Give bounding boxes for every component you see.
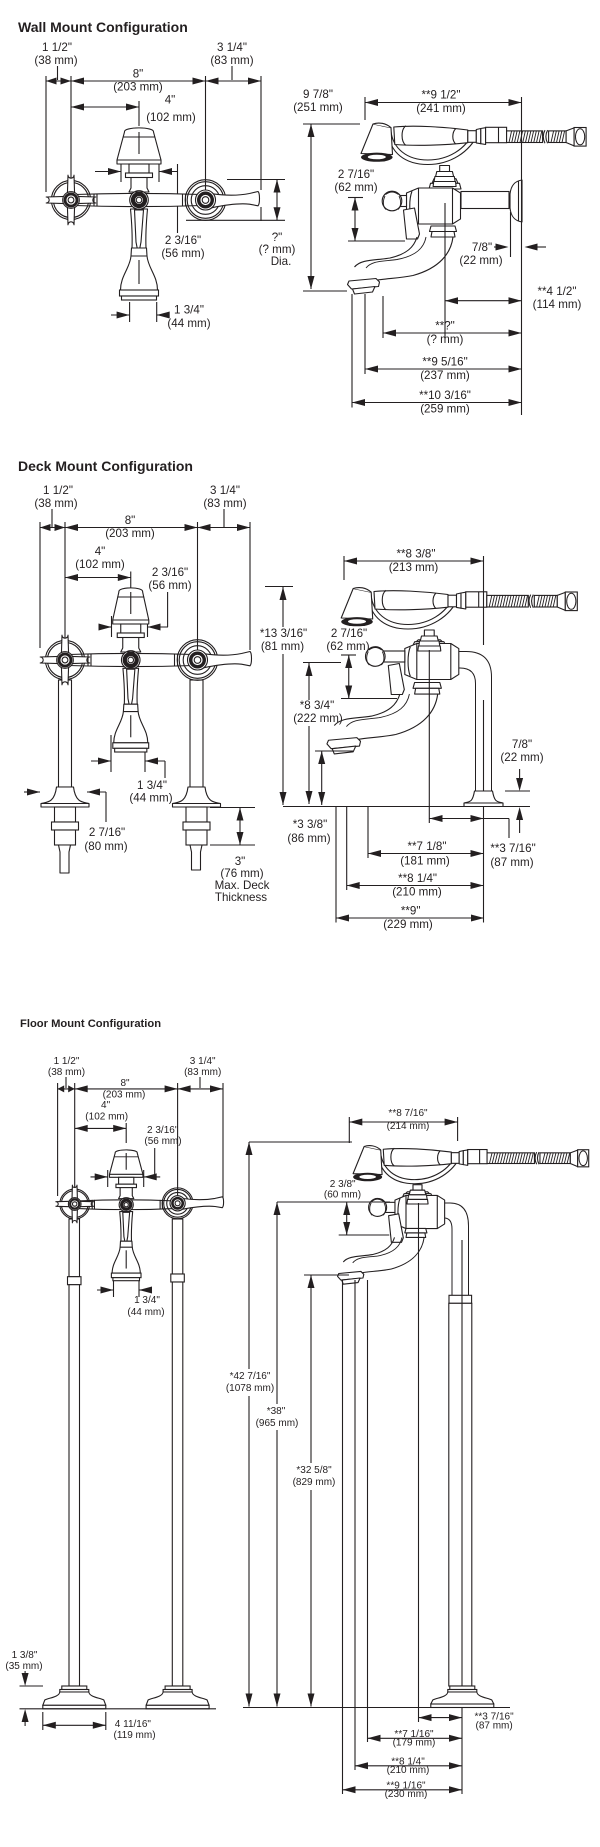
svg-text:(210 mm): (210 mm) — [387, 1765, 430, 1776]
floor lever handle front — [162, 1188, 193, 1219]
tub spout front — [131, 209, 148, 248]
floor tub spout front — [120, 1212, 133, 1242]
svg-text:(87 mm): (87 mm) — [490, 856, 533, 869]
svg-text:(? mm): (? mm) — [427, 333, 464, 346]
svg-text:(203 mm): (203 mm) — [105, 527, 155, 540]
svg-text:(81 mm): (81 mm) — [261, 640, 304, 653]
deck dimension 2 7/16" (80 mm) flange — [24, 791, 40, 793]
deck dim line 8" — [65, 527, 198, 529]
floor spout bonnet front — [109, 1150, 142, 1177]
deck right riser pipe — [190, 680, 203, 787]
svg-text:**3 7/16": **3 7/16" — [490, 842, 535, 855]
svg-text:(35 mm): (35 mm) — [5, 1661, 42, 1672]
svg-text:(102 mm): (102 mm) — [146, 111, 196, 124]
deck dimension **3 7/16" (87 mm) — [430, 818, 484, 820]
svg-text:(83 mm): (83 mm) — [210, 54, 253, 67]
svg-text:4": 4" — [165, 94, 176, 107]
svg-text:2 3/16": 2 3/16" — [152, 566, 188, 579]
svg-text:(22 mm): (22 mm) — [459, 254, 502, 267]
floor dim line 8" — [75, 1088, 178, 1090]
deck riser axis line — [483, 700, 485, 791]
deck right shank with nut — [186, 807, 207, 822]
svg-text:(60 mm): (60 mm) — [324, 1190, 361, 1201]
svg-text:(119 mm): (119 mm) — [114, 1730, 156, 1741]
floor dim line 3 1/4" — [178, 1088, 223, 1090]
svg-text:*3 3/8": *3 3/8" — [293, 818, 327, 831]
floor bottom extension lines — [342, 1280, 344, 1794]
svg-text:(1078 mm): (1078 mm) — [226, 1383, 274, 1394]
svg-text:7/8": 7/8" — [512, 738, 532, 751]
svg-text:*38": *38" — [267, 1406, 286, 1417]
spout bonnet front — [117, 128, 161, 164]
deck hand shower with cradle and hose — [368, 596, 459, 629]
dim line 3 1/4" — [206, 80, 262, 82]
extension line lever tip — [260, 76, 262, 190]
svg-text:(222 mm): (222 mm) — [293, 712, 343, 725]
deck right mounting flange — [173, 787, 221, 807]
svg-text:(965 mm): (965 mm) — [256, 1418, 299, 1429]
svg-text:(56 mm): (56 mm) — [161, 247, 204, 260]
svg-text:(251 mm): (251 mm) — [293, 101, 343, 114]
svg-text:8": 8" — [133, 68, 144, 81]
svg-text:(38 mm): (38 mm) — [48, 1067, 85, 1078]
svg-text:Wall Mount Configuration: Wall Mount Configuration — [18, 19, 188, 35]
svg-text:2 3/8": 2 3/8" — [330, 1179, 356, 1190]
extension line right handle center — [205, 76, 207, 200]
svg-text:(241 mm): (241 mm) — [416, 102, 466, 115]
svg-text:**10 3/16": **10 3/16" — [419, 389, 471, 402]
deck cross handle front — [45, 640, 84, 679]
svg-text:Dia.: Dia. — [271, 255, 292, 268]
svg-text:(44 mm): (44 mm) — [167, 317, 210, 330]
svg-text:2 7/16": 2 7/16" — [331, 627, 367, 640]
deck dimension *13 3/16" (81 mm) — [265, 586, 293, 588]
floor riser floor flange — [450, 1686, 475, 1690]
floor tee body front — [79, 1200, 174, 1210]
svg-text:1 3/4": 1 3/4" — [174, 304, 204, 317]
deck extension lines top — [39, 522, 41, 648]
long right extension line (wall) — [521, 97, 523, 415]
deck left shank with nut — [55, 807, 76, 822]
svg-text:(237 mm): (237 mm) — [420, 369, 470, 382]
deck line — [283, 806, 509, 808]
svg-text:(203 mm): (203 mm) — [103, 1090, 146, 1101]
svg-text:2 7/16": 2 7/16" — [89, 826, 125, 839]
svg-text:3 1/4": 3 1/4" — [210, 484, 240, 497]
supply nipple to wall — [461, 192, 509, 209]
lever handle front — [185, 180, 226, 221]
dim line 8" — [71, 80, 206, 82]
svg-text:1 3/8": 1 3/8" — [12, 1650, 38, 1661]
svg-text:**?": **?" — [435, 320, 455, 333]
svg-text:**8 3/8": **8 3/8" — [397, 548, 436, 561]
deck dimension *3 3/8" (86 mm) — [315, 750, 353, 752]
svg-text:3 1/4": 3 1/4" — [217, 41, 247, 54]
deck riser tube — [450, 652, 492, 792]
svg-text:*32 5/8": *32 5/8" — [296, 1465, 332, 1476]
svg-text:2 7/16": 2 7/16" — [338, 168, 374, 181]
floor cross handle front — [60, 1189, 90, 1219]
deck spout bonnet front — [113, 588, 149, 624]
svg-text:**9 5/16": **9 5/16" — [422, 356, 467, 369]
svg-text:(22 mm): (22 mm) — [500, 751, 543, 764]
floor line under side view — [243, 1707, 510, 1709]
svg-text:(62 mm): (62 mm) — [334, 181, 377, 194]
deck tub spout front — [123, 668, 139, 704]
tee body front — [75, 193, 202, 206]
floor dimension *42 7/16" (1078 mm) — [249, 1141, 352, 1143]
floor extension lines top — [57, 1083, 59, 1196]
svg-text:(83 mm): (83 mm) — [203, 497, 246, 510]
deck lever handle front — [177, 640, 218, 681]
svg-text:**8 7/16": **8 7/16" — [388, 1108, 428, 1119]
svg-text:(210 mm): (210 mm) — [392, 886, 442, 899]
floor valve body side — [410, 1190, 426, 1192]
svg-text:(44 mm): (44 mm) — [127, 1307, 164, 1318]
svg-text:(829 mm): (829 mm) — [293, 1477, 336, 1488]
floor dim line 1 1/2" — [58, 1088, 75, 1090]
extension line left handle center — [70, 76, 72, 200]
floor riser tube — [437, 1203, 469, 1295]
svg-text:*13 3/16": *13 3/16" — [260, 627, 307, 640]
deck valve body side — [421, 638, 438, 640]
svg-text:(214 mm): (214 mm) — [387, 1121, 430, 1132]
floor dimension 4 11/16" (119 mm) — [42, 1712, 44, 1730]
svg-text:(38 mm): (38 mm) — [34, 54, 77, 67]
floor hand shower with cradle and hose — [378, 1153, 461, 1183]
svg-text:1 1/2": 1 1/2" — [43, 484, 73, 497]
svg-text:4": 4" — [101, 1100, 111, 1111]
svg-text:2 3/16": 2 3/16" — [165, 234, 201, 247]
deck riser flange — [464, 791, 503, 807]
svg-text:(38 mm): (38 mm) — [34, 497, 77, 510]
svg-text:3 1/4": 3 1/4" — [190, 1056, 216, 1067]
svg-text:*8 3/4": *8 3/4" — [300, 699, 334, 712]
svg-text:1 1/2": 1 1/2" — [54, 1056, 80, 1067]
svg-text:(102 mm): (102 mm) — [85, 1112, 128, 1123]
svg-text:(102 mm): (102 mm) — [75, 558, 125, 571]
tub spout side — [430, 226, 457, 232]
floor dimension *38" (965 mm) — [277, 1201, 390, 1203]
floor dimension **3 7/16" (87 mm) — [419, 1717, 463, 1719]
valve body side — [437, 174, 454, 179]
svg-text:1 1/2": 1 1/2" — [42, 41, 72, 54]
svg-text:Thickness: Thickness — [215, 891, 267, 904]
svg-text:Deck Mount Configuration: Deck Mount Configuration — [18, 458, 193, 474]
svg-text:1 3/4": 1 3/4" — [134, 1295, 160, 1306]
svg-text:2 3/16": 2 3/16" — [147, 1125, 179, 1136]
svg-text:**4 1/2": **4 1/2" — [538, 285, 577, 298]
floor line under front view — [20, 1708, 217, 1710]
cross handle front — [51, 180, 90, 219]
svg-text:(203 mm): (203 mm) — [113, 81, 163, 94]
svg-text:*42 7/16": *42 7/16" — [230, 1371, 271, 1382]
svg-text:4 11/16": 4 11/16" — [115, 1719, 152, 1730]
svg-text:**8 1/4": **8 1/4" — [398, 872, 437, 885]
svg-text:**7 1/8": **7 1/8" — [408, 840, 447, 853]
deck dimension *8 3/4" (222 mm) — [303, 662, 341, 664]
svg-text:9 7/8": 9 7/8" — [303, 88, 333, 101]
svg-text:(259 mm): (259 mm) — [420, 403, 470, 416]
svg-text:(114 mm): (114 mm) — [533, 298, 582, 311]
svg-text:(83 mm): (83 mm) — [184, 1067, 221, 1078]
floor right floor flange — [165, 1686, 190, 1690]
floor tub spout side — [405, 1228, 427, 1233]
deck dim line 1 1/2" — [40, 527, 65, 529]
extension line left outer — [45, 76, 47, 192]
svg-text:(56 mm): (56 mm) — [144, 1136, 181, 1147]
floor riser axis line — [461, 1240, 463, 1686]
hand shower with cradle and hose — [388, 132, 479, 165]
svg-text:(229 mm): (229 mm) — [383, 918, 433, 931]
svg-text:Floor Mount Configuration: Floor Mount Configuration — [20, 1018, 161, 1030]
svg-text:1 3/4": 1 3/4" — [137, 779, 167, 792]
svg-text:(179 mm): (179 mm) — [393, 1738, 436, 1749]
svg-text:4": 4" — [95, 545, 106, 558]
floor left supply pipe — [69, 1219, 80, 1277]
floor dimension *32 5/8" (829 mm) — [304, 1274, 349, 1276]
svg-text:(86 mm): (86 mm) — [287, 832, 330, 845]
dim line 1 1/2" — [46, 80, 71, 82]
floor right supply pipe — [172, 1219, 183, 1274]
svg-text:(44 mm): (44 mm) — [129, 792, 172, 805]
floor left floor flange — [62, 1686, 87, 1690]
floor riser coupling — [449, 1295, 472, 1303]
wall escutcheon — [510, 180, 522, 222]
floor riser lower pipe — [449, 1303, 472, 1686]
svg-text:7/8": 7/8" — [472, 241, 492, 254]
deck tub spout side — [413, 683, 441, 689]
svg-text:8": 8" — [120, 1078, 130, 1089]
deck left riser pipe — [59, 680, 72, 787]
deck left mounting flange — [41, 787, 89, 807]
svg-text:(62 mm): (62 mm) — [326, 640, 369, 653]
svg-text:(181 mm): (181 mm) — [400, 855, 450, 868]
deck dimension 3" (76 mm) Max. Deck Thickness — [210, 807, 255, 809]
deck bottom extension lines — [335, 807, 337, 923]
deck dim line 3 1/4" — [198, 527, 251, 529]
svg-text:(87 mm): (87 mm) — [476, 1721, 513, 1732]
svg-text:(213 mm): (213 mm) — [389, 561, 439, 574]
svg-text:(56 mm): (56 mm) — [148, 579, 191, 592]
svg-text:(230 mm): (230 mm) — [385, 1789, 428, 1800]
svg-text:**9": **9" — [401, 905, 421, 918]
svg-text:**9 1/2": **9 1/2" — [422, 89, 461, 102]
svg-text:(80 mm): (80 mm) — [84, 840, 127, 853]
deck tee body front — [69, 653, 194, 666]
svg-text:8": 8" — [125, 514, 136, 527]
